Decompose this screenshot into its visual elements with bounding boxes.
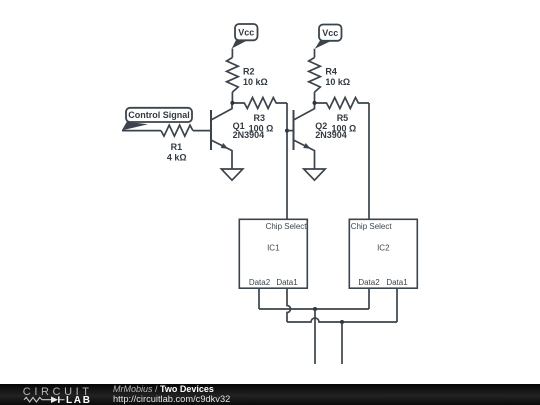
wire: IC1 Data2 pin down <box>258 288 260 309</box>
svg-text:Data1: Data1 <box>386 278 408 287</box>
wire: R1 to Q1 base <box>193 130 211 132</box>
wire: IC1 Data1 pin down with hop over bus 1 <box>287 288 291 322</box>
svg-text:4 kΩ: 4 kΩ <box>167 153 187 163</box>
svg-text:Data2: Data2 <box>358 278 380 287</box>
resistor R3 <box>232 98 287 109</box>
svg-text:R1: R1 <box>171 142 183 152</box>
label Control Signal <box>128 110 190 120</box>
label IC2 Chip Select pin <box>351 222 393 231</box>
svg-text:10 kΩ: 10 kΩ <box>325 77 350 87</box>
svg-text:Vcc: Vcc <box>322 28 338 38</box>
node D (bus 1 tap) <box>313 307 317 311</box>
wire: IC2 Data2 pin down <box>368 288 370 309</box>
transistor Q2 <box>294 103 315 169</box>
node C (Q2 collector junction) <box>313 101 317 105</box>
label Vcc (right) <box>322 28 338 38</box>
wire: R5 down to IC2 chip select <box>368 103 370 219</box>
label IC2 Data1 pin <box>386 278 408 287</box>
svg-text:R3: R3 <box>254 113 266 123</box>
power flag Vcc (left) <box>232 24 258 49</box>
svg-text:Chip Select: Chip Select <box>351 222 393 231</box>
flag: Control Signal <box>122 108 192 131</box>
wire: IC2 Data1 pin down <box>396 288 398 322</box>
node B (Q2 base junction) <box>285 129 289 133</box>
resistor R4 <box>309 58 321 93</box>
svg-text:Vcc: Vcc <box>238 28 254 38</box>
wire: control signal to R1 <box>122 130 161 132</box>
wire: Vcc to R4 <box>314 49 316 58</box>
wire B: bus 2 stub down <box>341 322 343 364</box>
node E (bus 2 tap) <box>340 320 344 324</box>
ground (Q1 emitter) <box>221 169 243 180</box>
label R2 value <box>243 66 268 86</box>
svg-text:R4: R4 <box>325 66 337 76</box>
logo diode symbol <box>51 396 65 403</box>
label Q2 <box>315 121 347 140</box>
label R1 value <box>167 142 187 163</box>
logo wordmark LAB <box>66 395 92 405</box>
label IC2 Data2 pin <box>358 278 380 287</box>
resistor R2 <box>227 58 239 93</box>
svg-text:Control Signal: Control Signal <box>128 110 190 120</box>
footer bar <box>0 384 540 405</box>
svg-text:Data2: Data2 <box>249 278 271 287</box>
label R5 value <box>332 113 357 133</box>
svg-text:R2: R2 <box>243 66 255 76</box>
label IC1 Chip Select pin <box>266 222 308 231</box>
logo resistor squiggle <box>24 397 51 402</box>
node A (Q1 collector junction) <box>230 101 234 105</box>
label R3 value <box>249 113 274 133</box>
svg-text:Chip Select: Chip Select <box>266 222 308 231</box>
CircuitLab logo <box>0 384 110 405</box>
wire: node B to Q2 base <box>287 130 294 132</box>
label IC1 <box>267 243 280 252</box>
footer attribution text <box>113 384 214 394</box>
logo wordmark CIRCUIT <box>23 386 93 398</box>
wire: R3 down to IC1 chip select <box>286 103 288 219</box>
wire: bus 1 (Data2 bus) <box>259 308 369 310</box>
label IC1 Data2 pin <box>249 278 271 287</box>
svg-text:2N3904: 2N3904 <box>315 130 347 140</box>
IC2 box <box>349 219 417 288</box>
label R4 value <box>325 66 350 86</box>
svg-text:IC2: IC2 <box>377 243 390 252</box>
ground (Q2 emitter) <box>304 169 326 180</box>
transistor Q1 <box>211 103 232 169</box>
label Vcc (left) <box>238 28 254 38</box>
svg-text:10 kΩ: 10 kΩ <box>243 77 268 87</box>
wire: R4 to node C <box>314 92 316 103</box>
IC1 box <box>239 219 307 288</box>
svg-text:Data1: Data1 <box>276 278 298 287</box>
svg-text:R5: R5 <box>337 113 349 123</box>
power flag Vcc (right) <box>315 25 342 49</box>
wire: Vcc to R2 <box>231 49 233 58</box>
wire A: bus 1 stub down <box>314 309 316 364</box>
resistor R1 <box>161 125 193 136</box>
label IC1 Data1 pin <box>276 278 298 287</box>
wire: bus 2 (Data1 bus) with hop over wire A <box>287 318 397 322</box>
wire: R2 to node A <box>231 92 233 103</box>
svg-text:LAB: LAB <box>66 395 92 405</box>
label IC2 <box>377 243 390 252</box>
resistor R5 <box>315 98 370 109</box>
label Q1 <box>233 121 265 140</box>
svg-text:IC1: IC1 <box>267 243 280 252</box>
svg-text:2N3904: 2N3904 <box>233 130 265 140</box>
